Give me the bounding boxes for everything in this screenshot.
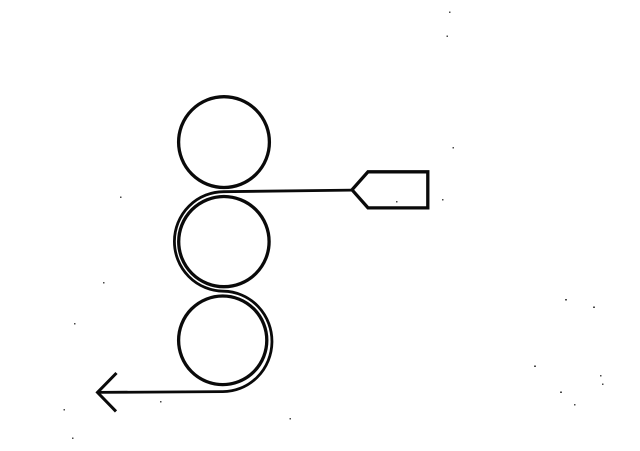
web path bbox=[98, 190, 352, 392]
roller bottom bbox=[179, 296, 267, 385]
flag tag bbox=[352, 172, 428, 208]
arrowhead bbox=[98, 373, 117, 411]
roller middle bbox=[179, 197, 269, 287]
roller top bbox=[179, 97, 270, 188]
